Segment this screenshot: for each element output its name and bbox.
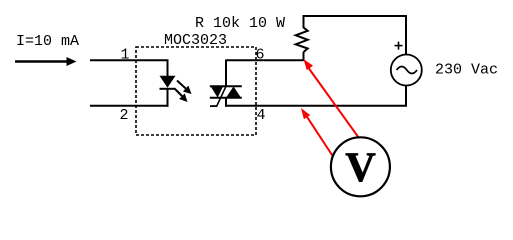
svg-text:4: 4 (257, 107, 266, 124)
wire pin4 to source (226, 85, 406, 106)
wire pin2 (90, 105, 169, 107)
voltmeter probe arrow to node 4 (301, 108, 334, 158)
optocoupler U1 dashed box (136, 47, 256, 135)
svg-text:MOC3023: MOC3023 (164, 32, 227, 49)
svg-text:1: 1 (121, 47, 130, 64)
svg-text:R 10k 10 W: R 10k 10 W (195, 15, 285, 32)
voltmeter M1 (331, 137, 390, 196)
svg-text:2: 2 (120, 107, 129, 124)
wire pin1 (90, 60, 168, 77)
AC source V1 (391, 42, 422, 86)
resistor R1 (296, 15, 308, 61)
LED D1 (160, 76, 176, 107)
wire top (303, 16, 407, 55)
svg-text:I=10 mA: I=10 mA (16, 33, 79, 50)
svg-text:230 Vac: 230 Vac (435, 61, 498, 78)
LED light emission arrows (175, 81, 192, 103)
triac Q1 (210, 60, 242, 107)
svg-text:V: V (345, 145, 375, 191)
input current arrow (15, 57, 77, 66)
wire pin6 to resistor (226, 59, 304, 61)
voltmeter probe arrow to node 6 (304, 59, 365, 145)
